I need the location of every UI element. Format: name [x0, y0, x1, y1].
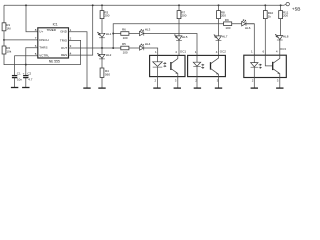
- ground under OC2 pin2: [194, 87, 201, 89]
- svg-text:HL7: HL7: [222, 35, 228, 39]
- svg-text:100: 100: [225, 26, 230, 30]
- wire OC1 pin3 to ground: [177, 77, 179, 88]
- LED HL7: [214, 35, 228, 41]
- resistor R9 row top: [224, 22, 232, 26]
- svg-text:100: 100: [123, 36, 128, 40]
- ground under OC1 pin3: [174, 87, 181, 89]
- svg-text:HL3: HL3: [145, 27, 151, 31]
- node rail x179: [178, 4, 180, 6]
- svg-text:+: +: [23, 72, 25, 76]
- resistor R8: [217, 11, 221, 19]
- resistor R2: [2, 46, 6, 54]
- wire rail to R8: [218, 5, 220, 10]
- svg-text:IC1: IC1: [53, 23, 58, 27]
- LED HL1: [97, 32, 111, 38]
- svg-text:HL6: HL6: [245, 26, 251, 30]
- svg-text:TRIG: TRIG: [60, 38, 68, 42]
- svg-text:10k: 10k: [6, 50, 11, 54]
- wire R1 to node A: [3, 31, 5, 40]
- svg-text:RES: RES: [61, 53, 67, 57]
- wire R5 to HL4: [129, 47, 140, 49]
- resistor R11: [279, 11, 283, 19]
- svg-text:HL2: HL2: [106, 53, 112, 57]
- optocoupler OC1 box: [150, 50, 187, 77]
- wire HL7 to box2 pin4: [218, 40, 220, 55]
- svg-text:C2: C2: [27, 72, 31, 76]
- ground under OC3 pin3: [276, 87, 283, 89]
- svg-text:200: 200: [283, 14, 288, 18]
- wire R10 to box3 base pin: [264, 19, 266, 56]
- wire rail to IC pin 8: [26, 5, 38, 31]
- svg-text:R6: R6: [122, 28, 126, 32]
- wire rail to R11: [280, 5, 282, 10]
- node B junction trig/thrs/C2: [25, 64, 27, 66]
- svg-text:4.7: 4.7: [28, 78, 33, 82]
- node A: [3, 39, 5, 41]
- LED HL8: [275, 34, 289, 40]
- node bus mid: [112, 33, 114, 35]
- wire OC3 pin2 to ground: [253, 78, 255, 89]
- +5B supply terminal: [286, 2, 289, 5]
- node rail x102: [101, 4, 103, 6]
- optocoupler OC3 box: [244, 47, 286, 78]
- phototransistor inside OC3: [273, 55, 280, 77]
- wire IC pin 3 OUT east: [69, 47, 121, 49]
- resistor R4: [100, 68, 104, 77]
- svg-text:OC3: OC3: [280, 47, 287, 51]
- node rail x92.7: [92, 4, 94, 6]
- svg-text:HL4: HL4: [145, 42, 151, 46]
- svg-text:OC1: OC1: [180, 50, 187, 54]
- svg-text:VCTRL: VCTRL: [39, 54, 49, 58]
- wire R7 to HL5: [178, 19, 180, 36]
- wire R2 top to node A: [3, 40, 5, 46]
- wire HL3 to box2 pin1: [144, 34, 197, 56]
- wire node B to C2: [25, 65, 27, 76]
- wire HL8 to box3 pin4: [279, 40, 281, 55]
- wire R11 to HL8: [279, 19, 282, 36]
- optocoupler OC2 box: [188, 50, 227, 77]
- svg-text:OUT: OUT: [61, 46, 68, 50]
- svg-text:R9: R9: [225, 18, 229, 22]
- wire rail to R7: [178, 5, 180, 10]
- wire HL2 to R4: [101, 59, 103, 68]
- svg-text:R5: R5: [122, 42, 126, 46]
- svg-text:THRS: THRS: [39, 46, 47, 50]
- wire IC pin 2 TRIG to bottom bus: [69, 40, 81, 64]
- wire out node to HL2: [101, 48, 103, 54]
- wire rail to R3: [101, 5, 103, 10]
- phototransistor inside OC1: [171, 55, 178, 76]
- LED inside OC2: [193, 55, 204, 76]
- node rail x280.6: [280, 4, 282, 6]
- wire R4 to ground: [101, 77, 103, 88]
- wire HL5 to box1 pin4: [178, 40, 180, 55]
- wire IC pin 6 to node B: [26, 48, 38, 65]
- ground under OC3 pin2: [251, 87, 258, 89]
- LED HL5: [174, 35, 187, 41]
- wire R6 to HL3: [129, 33, 140, 35]
- wire R8 to HL7: [218, 19, 220, 36]
- svg-text:1k: 1k: [268, 14, 272, 18]
- svg-text:HL5: HL5: [182, 35, 188, 39]
- wire R2 bottom to trig bus: [4, 54, 81, 65]
- LED HL2: [97, 53, 111, 59]
- wire node A to IC pin 7: [4, 39, 38, 41]
- wire OC3 pin3 to ground: [279, 78, 281, 89]
- LED HL6: [242, 19, 251, 29]
- wire row mid: [113, 33, 121, 35]
- resistor R1: [2, 23, 6, 31]
- ground under C2: [22, 87, 29, 89]
- svg-text:1M: 1M: [6, 26, 11, 30]
- svg-text:GND: GND: [60, 30, 67, 34]
- svg-text:100: 100: [123, 50, 128, 54]
- svg-text:HL1: HL1: [106, 32, 112, 36]
- wire OC2 pin2 to ground: [196, 77, 198, 88]
- capacitor C1: [12, 72, 22, 82]
- ground under pin1: [83, 87, 90, 89]
- LED HL4: [140, 42, 151, 50]
- node rail x26: [25, 4, 27, 6]
- svg-text:+5B: +5B: [292, 6, 301, 12]
- svg-text:DISCH: DISCH: [39, 38, 48, 42]
- svg-text:U+: U+: [39, 30, 43, 34]
- svg-text:HL8: HL8: [283, 34, 289, 38]
- LED HL3: [140, 27, 151, 35]
- LED inside OC1: [153, 55, 166, 76]
- svg-text:200: 200: [221, 14, 226, 18]
- node rail x218.5: [218, 4, 220, 6]
- svg-text:200: 200: [181, 14, 186, 18]
- wire rail to R10: [264, 5, 266, 10]
- wire C2 to ground: [25, 78, 27, 88]
- wire OC2 pin3 to ground: [218, 77, 220, 88]
- resistor R3: [100, 11, 104, 19]
- op IC1 555 timer box: [38, 23, 69, 64]
- ground under OC1 pin2: [153, 87, 160, 89]
- wire C1 to ground: [14, 78, 16, 88]
- wire R3 to HL1: [101, 19, 103, 34]
- resistor R7: [177, 11, 181, 19]
- node out x102: [101, 47, 103, 49]
- ground under C1: [11, 87, 18, 89]
- node rail x265.3: [264, 4, 266, 6]
- svg-text:OC2: OC2: [220, 50, 227, 54]
- wire HL1 to out node: [101, 38, 103, 48]
- ground under R4: [98, 87, 105, 89]
- wire HL6 to box3 pin1: [246, 24, 254, 56]
- LED inside OC3: [251, 55, 262, 77]
- wire IC pin 4 RES to rail: [69, 5, 93, 55]
- resistor R10: [263, 11, 267, 19]
- phototransistor inside OC2: [211, 55, 219, 76]
- svg-text:TIMER: TIMER: [47, 28, 57, 32]
- svg-text:NE 555: NE 555: [49, 59, 60, 63]
- wire OC1 pin2 to ground: [157, 77, 159, 88]
- node out bus: [112, 47, 114, 49]
- base wire OC3: [265, 55, 272, 66]
- svg-text:200: 200: [104, 14, 109, 18]
- ground under OC2 pin3: [215, 87, 222, 89]
- resistor R5 row out: [121, 46, 129, 50]
- svg-text:560: 560: [105, 72, 110, 76]
- capacitor C2: [23, 72, 33, 82]
- resistor R6 row mid: [121, 32, 129, 36]
- wire IC pin 1 GND to ground: [69, 32, 88, 88]
- wire left drop from rail to R1: [3, 5, 5, 23]
- wire bus vertical: [113, 24, 254, 48]
- svg-text:10n: 10n: [17, 78, 22, 82]
- wire top +5V rail: [4, 4, 286, 7]
- wire IC pin 5 to C1: [15, 56, 38, 76]
- svg-text:C1: C1: [17, 72, 21, 76]
- wire HL4 to box1 pin1: [144, 48, 158, 55]
